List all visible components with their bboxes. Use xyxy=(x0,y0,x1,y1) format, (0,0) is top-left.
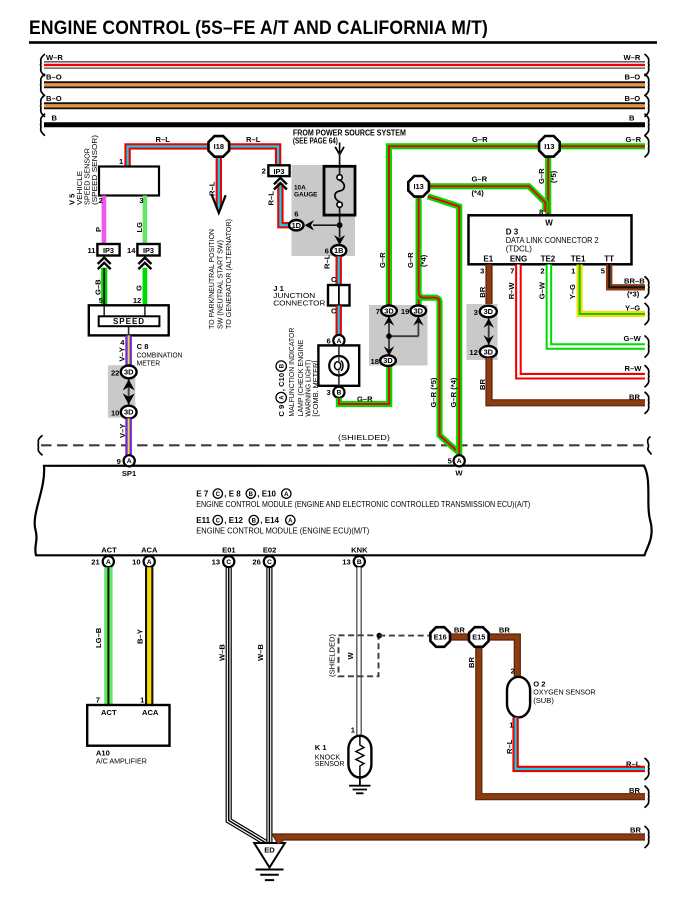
svg-text:E16: E16 xyxy=(434,633,447,642)
svg-text:3D: 3D xyxy=(384,306,394,315)
svg-text:R–L: R–L xyxy=(323,254,332,269)
wire R-L branch from I18 down to P/N position switch xyxy=(216,157,222,209)
svg-text:3D: 3D xyxy=(484,307,494,316)
svg-text:G–W: G–W xyxy=(624,334,642,343)
svg-text:BR: BR xyxy=(478,379,487,390)
connector IP3 (pin 11) xyxy=(97,244,119,256)
svg-text:R–L: R–L xyxy=(246,135,261,144)
component J1 junction connector xyxy=(328,285,350,306)
node: arrow into 1D xyxy=(305,220,315,231)
svg-text:SPEED: SPEED xyxy=(113,317,145,326)
node: connector chevrons below IP3 11 xyxy=(98,258,111,264)
node pin 5 A W on ECM xyxy=(454,455,465,466)
svg-text:22: 22 xyxy=(111,368,119,377)
connector IP3 (pin 2) xyxy=(268,165,289,176)
svg-text:R–L: R–L xyxy=(207,181,216,196)
svg-text:B–O: B–O xyxy=(625,94,641,103)
svg-text:W–B: W–B xyxy=(256,644,265,661)
wire G-B to combination meter pin5 xyxy=(101,268,107,306)
svg-text:A: A xyxy=(457,458,462,465)
svg-text:K 1: K 1 xyxy=(315,743,328,752)
connector 3D pin 22 xyxy=(121,366,137,379)
label C9(A),C10(B) column xyxy=(276,361,286,417)
component: malfunction indicator lamp box (comb meter) xyxy=(318,345,359,385)
node: junction dot at fuse output xyxy=(337,222,343,228)
component: engine control module band xyxy=(35,466,652,556)
svg-text:Y–G: Y–G xyxy=(568,284,577,299)
component A10 A/C amplifier box xyxy=(87,705,169,746)
wire R-L from O2 pin1 to edge xyxy=(516,717,645,769)
svg-text:7: 7 xyxy=(96,696,100,705)
svg-text:BR: BR xyxy=(467,657,476,668)
svg-text:[COMB. METER]: [COMB. METER] xyxy=(311,361,320,417)
svg-text:ACA: ACA xyxy=(142,708,159,717)
svg-text:TE2: TE2 xyxy=(541,255,556,264)
svg-text:SP1: SP1 xyxy=(122,469,137,478)
svg-text:1B: 1B xyxy=(334,246,343,255)
svg-text:B: B xyxy=(252,519,257,525)
svg-text:MALFUNCTION INDICATOR: MALFUNCTION INDICATOR xyxy=(287,327,296,416)
svg-text:KNK: KNK xyxy=(351,546,368,555)
svg-text:18: 18 xyxy=(371,357,379,366)
svg-text:3D: 3D xyxy=(124,408,134,417)
component K1 knock sensor xyxy=(348,736,371,778)
node: shield line left squiggle xyxy=(38,435,43,455)
svg-text:I18: I18 xyxy=(214,142,224,151)
node pin 9 A SP1 on ECM xyxy=(124,455,135,466)
svg-text:G–R: G–R xyxy=(406,252,415,268)
wire P from V5 pin2 to IP3 xyxy=(102,196,107,245)
svg-text:BR: BR xyxy=(454,626,465,635)
wire G-R (*4) from I13 diagonal down to ECM pin W xyxy=(428,196,459,456)
svg-text:2: 2 xyxy=(99,196,103,205)
svg-text:A: A xyxy=(280,395,286,400)
component: shield dashed box xyxy=(339,635,379,676)
svg-text:TT: TT xyxy=(604,255,614,264)
wire B-O bus 2 xyxy=(44,102,645,109)
component V5 vehicle speed sensor box xyxy=(99,167,159,196)
wire: fuse feed line xyxy=(339,152,341,238)
wire: dashed shield drain to E16 xyxy=(379,635,429,637)
svg-text:10A: 10A xyxy=(294,184,306,191)
svg-text:3: 3 xyxy=(139,196,143,205)
wire R-L from J1 to meter pin A xyxy=(336,306,342,336)
wire W-B from E02 to ED ground xyxy=(266,568,272,843)
component: 3D connector block (22/10) gray box xyxy=(108,365,135,418)
svg-text:R–W: R–W xyxy=(507,282,516,300)
svg-text:, E 8: , E 8 xyxy=(224,490,241,499)
wire: shielding dashed line (SHIELDED) xyxy=(41,444,645,446)
wire G-R from 3D pin7 up and right to I13 (top run) xyxy=(389,146,645,307)
ground ED triangle xyxy=(254,843,285,868)
svg-text:(SEE PAGE 64): (SEE PAGE 64) xyxy=(293,137,338,146)
svg-text:E02: E02 xyxy=(263,546,277,555)
svg-text:3: 3 xyxy=(474,308,478,317)
svg-text:ENG: ENG xyxy=(510,255,527,264)
svg-text:B: B xyxy=(336,390,341,397)
wire BR-B from DLC TT to edge xyxy=(609,265,645,288)
svg-text:LG–B: LG–B xyxy=(94,627,103,648)
svg-text:ACA: ACA xyxy=(141,546,158,555)
svg-text:E 7: E 7 xyxy=(196,490,209,499)
wire W-B from E01 to ED ground xyxy=(229,568,266,843)
svg-text:I13: I13 xyxy=(413,182,423,191)
svg-text:10: 10 xyxy=(111,409,119,418)
component: 3D connector gray box (7/19/18) xyxy=(369,305,428,366)
svg-text:B: B xyxy=(52,114,58,123)
svg-text:A: A xyxy=(127,458,132,465)
node: arrows between 3D pins 3 and 12 xyxy=(488,318,490,345)
svg-text:C: C xyxy=(331,275,337,284)
svg-text:14: 14 xyxy=(127,246,136,255)
svg-text:ENGINE CONTROL (5S–FE A/T AND: ENGINE CONTROL (5S–FE A/T AND CALIFORNIA… xyxy=(29,18,488,39)
svg-text:7: 7 xyxy=(376,307,380,316)
svg-text:ED: ED xyxy=(264,846,275,855)
svg-text:B: B xyxy=(357,559,362,566)
svg-text:11: 11 xyxy=(87,246,96,255)
svg-text:W–B: W–B xyxy=(218,644,227,661)
wire G-R from I13 middle down to 3D pin19 xyxy=(416,197,422,307)
wire LG from V5 pin3 to IP3 xyxy=(143,196,148,245)
svg-text:C: C xyxy=(226,559,231,566)
connector 3D pin 12 xyxy=(480,346,497,358)
connector 1D (pin 6) xyxy=(289,220,303,230)
node: open arrowhead down (to park/neutral sw) xyxy=(212,195,226,213)
wire BR bottom from ED area to edge xyxy=(277,837,645,843)
svg-text:B: B xyxy=(249,492,254,498)
svg-text:3D: 3D xyxy=(383,356,393,365)
wire V-Y from meter pin4 to 3D pin22 xyxy=(125,335,132,366)
node: arrows between 3D ovals xyxy=(128,379,130,405)
svg-text:R–L: R–L xyxy=(626,759,641,768)
svg-text:A: A xyxy=(336,338,341,345)
svg-text:9: 9 xyxy=(117,457,121,466)
svg-text:R–L: R–L xyxy=(267,191,276,206)
svg-text:A: A xyxy=(106,559,111,566)
svg-text:W–R: W–R xyxy=(624,53,641,62)
wire B-O bus 1 xyxy=(44,81,645,88)
component D3 data link connector 2 box xyxy=(469,215,632,264)
wire R-L from V5 pin1 to I18 to IP3 pin2 xyxy=(128,146,279,166)
svg-text:2: 2 xyxy=(262,167,266,176)
connector 3D pin 3 xyxy=(480,306,497,318)
connector I13 (middle) xyxy=(408,176,429,197)
connector 3D pin 19 xyxy=(411,305,427,316)
wire W-R top bus xyxy=(44,61,645,63)
svg-text:, E14: , E14 xyxy=(260,516,279,525)
svg-text:3: 3 xyxy=(326,388,330,397)
connector IP3 (pin 14) xyxy=(137,244,159,256)
svg-text:13: 13 xyxy=(342,558,350,567)
svg-text:C: C xyxy=(331,307,337,316)
svg-text:(SUB): (SUB) xyxy=(533,696,554,705)
svg-text:BR–B: BR–B xyxy=(624,276,645,285)
svg-text:A: A xyxy=(147,559,152,566)
svg-text:B–O: B–O xyxy=(625,73,641,82)
svg-text:1D: 1D xyxy=(292,221,302,230)
connector 3D pin 7 xyxy=(381,305,397,316)
svg-text:IP3: IP3 xyxy=(143,246,154,255)
svg-text:E1: E1 xyxy=(483,255,493,264)
svg-text:C: C xyxy=(216,519,221,525)
svg-text:(*4): (*4) xyxy=(472,189,485,198)
svg-text:IP3: IP3 xyxy=(103,246,114,255)
svg-text:(SHIELDED): (SHIELDED) xyxy=(327,633,336,677)
wire W from KNK to knock sensor xyxy=(356,567,361,736)
wire G-R (*5) from I13 top down to DLC pin 8 xyxy=(545,157,551,216)
svg-text:P: P xyxy=(94,227,103,232)
svg-text:TE1: TE1 xyxy=(571,255,586,264)
svg-text:W: W xyxy=(346,652,355,660)
ground symbol below knock sensor xyxy=(349,778,370,794)
wire R-W from DLC ENG to edge xyxy=(518,265,645,377)
svg-text:(SHIELDED): (SHIELDED) xyxy=(338,433,391,442)
svg-text:, E12: , E12 xyxy=(224,516,243,525)
component: 3D connector gray box (3/12) xyxy=(467,304,498,360)
svg-text:3: 3 xyxy=(480,266,484,275)
svg-text:BR: BR xyxy=(629,786,640,795)
svg-text:BR: BR xyxy=(478,286,487,297)
svg-text:2: 2 xyxy=(540,266,544,275)
component: SPEED inner box xyxy=(99,316,160,326)
wire: branch to 1D xyxy=(313,224,340,226)
svg-text:(*3): (*3) xyxy=(627,290,640,299)
svg-text:E15: E15 xyxy=(472,633,485,642)
component: gauge fuse gray box xyxy=(292,165,356,256)
svg-text:R–W: R–W xyxy=(625,364,643,373)
svg-text:6: 6 xyxy=(294,210,298,219)
svg-text:BR: BR xyxy=(499,626,510,635)
svg-text:LG: LG xyxy=(135,222,144,233)
svg-text:ACT: ACT xyxy=(101,546,117,555)
svg-text:ACT: ACT xyxy=(101,708,117,717)
wire R-L from 1B to junction connector J1 xyxy=(336,256,342,286)
wire BR from DLC E1 down to 3D pin3 xyxy=(485,265,492,307)
connector I18 xyxy=(209,136,230,157)
svg-text:A: A xyxy=(288,519,293,525)
node: arrow from power source xyxy=(339,143,341,153)
svg-text:G–R (*5): G–R (*5) xyxy=(429,377,438,407)
connector 3D pin 10 xyxy=(121,406,137,419)
connector 1B (pin 6) xyxy=(331,245,346,256)
svg-text:Y–G: Y–G xyxy=(625,304,640,313)
svg-text:V–Y: V–Y xyxy=(117,347,126,361)
wire V-Y from 3D pin10 to ECM SP1 xyxy=(125,418,132,456)
svg-text:G–R: G–R xyxy=(357,394,373,403)
node: shield junction dot xyxy=(377,633,383,639)
node pin 6 A of combination meter xyxy=(333,335,344,346)
svg-text:7: 7 xyxy=(510,266,514,275)
svg-text:W: W xyxy=(545,219,553,228)
node: connector chevrons below IP3 2 xyxy=(274,178,287,184)
svg-text:12: 12 xyxy=(469,348,477,357)
wire G-R (*4) from I13 middle right to DLC pin 8 xyxy=(430,186,546,212)
node: arrow down into 1B xyxy=(334,235,345,245)
wire Y-G from DLC TE1 to edge xyxy=(580,265,645,314)
svg-text:(*5): (*5) xyxy=(549,170,558,183)
fuse element xyxy=(337,175,342,180)
wire BR from 3D pin12 right to edge xyxy=(489,358,645,403)
svg-text:19: 19 xyxy=(401,307,409,316)
wire R-L from IP3 pin2 down to 1D xyxy=(280,184,290,226)
component: fuse 10A GAUGE box xyxy=(324,166,355,215)
svg-text:BR: BR xyxy=(629,393,640,402)
svg-text:SENSOR: SENSOR xyxy=(315,759,345,768)
svg-text:GAUGE: GAUGE xyxy=(294,191,318,198)
svg-text:A/C AMPLIFIER: A/C AMPLIFIER xyxy=(96,757,147,766)
svg-text:ENGINE CONTROL MODULE (ENGINE: ENGINE CONTROL MODULE (ENGINE ECU)(M/T) xyxy=(196,527,369,536)
svg-text:G–R: G–R xyxy=(472,135,488,144)
node pin 3 B of combination meter xyxy=(333,387,344,398)
svg-text:8: 8 xyxy=(539,208,543,217)
connector E16 xyxy=(430,627,450,647)
svg-text:3D: 3D xyxy=(414,306,424,315)
node: W-R continuation braces xyxy=(41,54,46,76)
svg-text:(SPEED SENSOR): (SPEED SENSOR) xyxy=(90,134,99,205)
svg-text:IP3: IP3 xyxy=(273,167,284,176)
svg-text:B: B xyxy=(280,363,286,368)
svg-text:R–L: R–L xyxy=(156,135,171,144)
svg-text:3D: 3D xyxy=(484,347,494,356)
svg-text:B–Y: B–Y xyxy=(135,629,144,644)
svg-text:13: 13 xyxy=(212,558,220,567)
svg-text:2: 2 xyxy=(511,666,515,675)
svg-text:TO GENERATOR (ALTERNATOR): TO GENERATOR (ALTERNATOR) xyxy=(224,219,233,329)
svg-text:R–L: R–L xyxy=(505,739,514,754)
wire BR from E15 right to O2 pin2 xyxy=(489,637,518,678)
svg-text:3D: 3D xyxy=(124,368,134,377)
connector E15 xyxy=(469,627,489,647)
wire G to combination meter pin12 xyxy=(142,268,147,306)
svg-text:BR: BR xyxy=(630,825,641,834)
wire: internal leads xyxy=(104,306,145,336)
svg-text:V–Y: V–Y xyxy=(118,424,127,438)
svg-text:B–O: B–O xyxy=(46,73,62,82)
svg-text:C 9: C 9 xyxy=(277,405,286,417)
svg-text:, C10: , C10 xyxy=(277,373,286,391)
svg-text:21: 21 xyxy=(91,558,100,567)
wire BR from E15 down to edge xyxy=(479,648,645,797)
node: shield line right squiggle xyxy=(648,437,652,455)
svg-text:26: 26 xyxy=(252,558,260,567)
connector 3D pin 18 xyxy=(380,355,396,366)
component C8 combination meter speedometer outer box xyxy=(89,305,169,335)
svg-text:C: C xyxy=(267,559,272,566)
ground symbol below ED xyxy=(256,870,284,881)
svg-text:(TDCL): (TDCL) xyxy=(506,244,533,253)
svg-text:6: 6 xyxy=(326,336,330,345)
svg-text:, E10: , E10 xyxy=(257,490,276,499)
svg-text:G–R: G–R xyxy=(472,175,488,184)
lamp symbol xyxy=(329,356,348,375)
svg-text:W–R: W–R xyxy=(46,53,63,62)
wire B-Y from ACA to A10 pin1 xyxy=(145,567,153,705)
svg-text:G–R: G–R xyxy=(378,252,387,268)
node: connector chevrons below IP3 14 xyxy=(138,258,151,264)
wire BR between E16 and E15 xyxy=(450,633,470,640)
svg-text:METER: METER xyxy=(137,359,161,368)
svg-text:ENGINE CONTROL MODULE (ENGINE: ENGINE CONTROL MODULE (ENGINE AND ELECTR… xyxy=(196,500,530,509)
svg-text:12: 12 xyxy=(133,296,141,305)
svg-text:G–R: G–R xyxy=(626,135,642,144)
svg-text:CONNECTOR: CONNECTOR xyxy=(273,298,326,307)
svg-text:G–W: G–W xyxy=(537,281,546,299)
svg-text:(*4): (*4) xyxy=(419,254,428,267)
svg-text:E01: E01 xyxy=(222,546,236,555)
svg-text:10: 10 xyxy=(132,558,140,567)
svg-text:G–R: G–R xyxy=(537,168,546,184)
svg-text:W: W xyxy=(455,468,463,477)
svg-text:G–R (*4): G–R (*4) xyxy=(449,377,458,407)
wire G-R from meter pin B to 3D pin18 xyxy=(339,364,389,404)
wire LG-B from ACT to A10 pin7 xyxy=(104,567,112,705)
svg-text:C: C xyxy=(216,492,221,498)
svg-text:B–O: B–O xyxy=(46,94,62,103)
wire G-W from DLC TE2 to edge xyxy=(549,265,645,347)
node: arrows between 3D ovals xyxy=(389,316,418,356)
svg-text:E11: E11 xyxy=(196,516,210,525)
svg-text:6: 6 xyxy=(325,247,329,256)
svg-text:I13: I13 xyxy=(544,142,554,151)
connector I13 (top) xyxy=(539,136,560,157)
svg-text:G–B: G–B xyxy=(94,279,103,295)
wire B bus xyxy=(44,122,645,127)
wire G-R (*5) branch to ECM pin W xyxy=(419,293,460,453)
svg-text:B: B xyxy=(629,114,635,123)
svg-text:A: A xyxy=(284,492,289,498)
svg-text:G: G xyxy=(135,285,144,291)
